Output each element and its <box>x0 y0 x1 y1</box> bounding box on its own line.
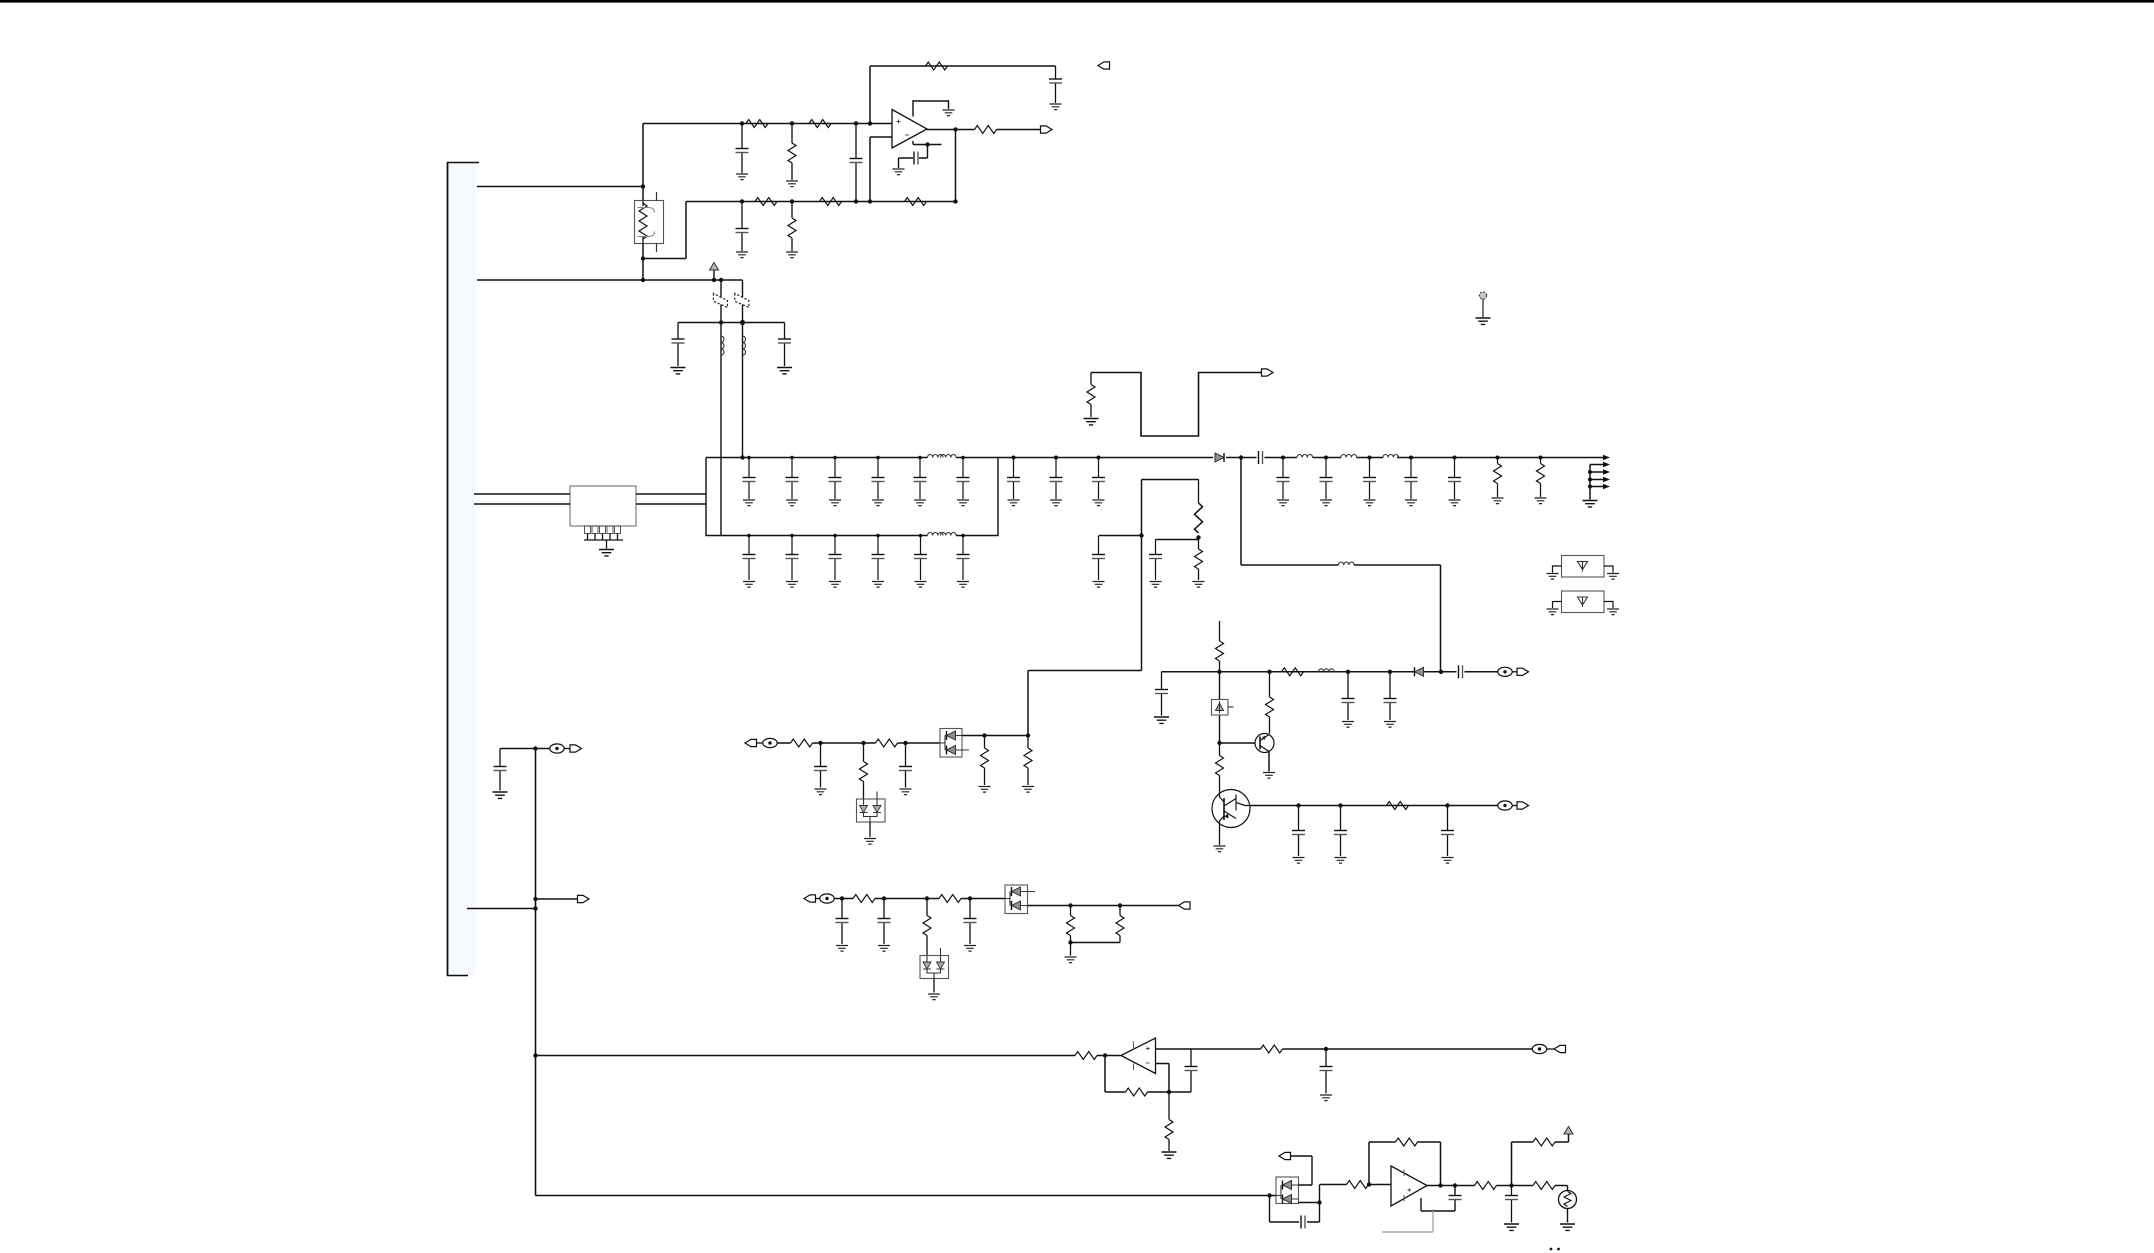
connector P4 (circle-dot + flag) <box>1532 1044 1565 1053</box>
transistor Q2 (PNP power) <box>1212 790 1250 846</box>
connector circle-dot <box>816 894 835 903</box>
ground <box>1442 858 1454 864</box>
inductor L20 <box>1319 669 1335 672</box>
ground <box>957 500 969 506</box>
ground <box>1504 1224 1519 1230</box>
resistor R49 <box>1116 903 1124 942</box>
capacitor C73 (output to +in) <box>1421 1186 1462 1212</box>
ground <box>786 500 798 506</box>
capacitor C11 (shield top row) <box>786 456 799 499</box>
wire inverting input riser x=870 <box>868 137 892 204</box>
resistor R53 <box>1261 1045 1283 1053</box>
wire lower net rail y=898.5 <box>834 898 1005 900</box>
ground <box>964 946 976 952</box>
wire drop x=1241 to y=565 across to x=1440.5 <box>1239 455 1441 672</box>
ground <box>1193 582 1205 588</box>
ground <box>1364 500 1376 506</box>
capacitor C52 to ground <box>1384 670 1397 720</box>
capacitor C50 to ground (left end) <box>1155 672 1168 716</box>
resistor R56 <box>1475 1182 1497 1190</box>
wire long vertical x=535.5 <box>533 746 537 1195</box>
capacitor C30 (series) <box>1259 451 1263 464</box>
capacitor C4 to ground <box>736 199 749 251</box>
node arrow tap <box>1603 477 1610 483</box>
capacitor C36 to ground <box>1405 456 1418 500</box>
resistor R32 <box>1282 668 1304 676</box>
power symbol VCC (triangle) <box>710 263 719 281</box>
wire stage2 feedback loop top <box>1369 1142 1441 1186</box>
wire upper net rail y=743 <box>777 742 940 744</box>
inductor L2 <box>743 336 746 355</box>
TVS module U4 <box>1553 591 1614 613</box>
capacitor C53 (series) <box>1459 665 1463 678</box>
connector P3 (circle-dot + flag) <box>1498 801 1529 810</box>
resistor R6 <box>820 198 842 206</box>
ground <box>829 500 841 506</box>
resistor R5 <box>755 198 777 206</box>
wire op-amp power (gray) <box>1382 1209 1433 1232</box>
opto/diode module U8 (dual diode left) <box>1005 885 1035 914</box>
node junction (1105,1055.5) <box>1103 1053 1107 1057</box>
capacitor C40 to ground <box>1092 536 1105 580</box>
ground <box>1547 574 1559 580</box>
IC U1 (common-mode choke module) <box>570 486 636 526</box>
capacitor C64 to ground <box>878 896 891 944</box>
connector flag OUT3 <box>1179 902 1191 909</box>
ground <box>786 582 798 588</box>
wire IC left pair <box>474 494 570 504</box>
resistor R51 (feedback) <box>1126 1088 1148 1096</box>
connector flag IN2 (lower net) <box>804 895 816 902</box>
connector bus J1 (left edge card connector) <box>447 162 479 976</box>
wire mid rail y=671.8 <box>1162 671 1498 673</box>
connector P2 (circle-dot + flag) <box>1498 667 1529 676</box>
wire IC right pair <box>636 494 706 504</box>
wire tap y=908.5 from bus <box>467 906 538 910</box>
transistor Q1 (NPN) <box>1255 734 1274 772</box>
resistor R2 <box>809 120 831 128</box>
capacitor C54 to ground <box>1292 803 1305 856</box>
opto/diode module U6 (dual diode left) <box>940 729 969 758</box>
capacitor C20 (shield bottom row) <box>743 534 756 580</box>
ground <box>1008 500 1020 506</box>
ground <box>979 787 991 793</box>
ground <box>736 252 748 258</box>
wire stage1 input y=1055.5 <box>533 1053 1121 1057</box>
inductor L13 <box>1339 562 1355 565</box>
ground <box>1065 957 1077 963</box>
ground <box>928 994 940 1000</box>
wire subnet y=536 <box>1099 535 1142 537</box>
wire op-amp inputs <box>1156 1049 1192 1094</box>
inductor L11 <box>1341 455 1357 458</box>
capacitor C22 (shield bottom row) <box>829 534 842 580</box>
resistor R54 <box>1347 1181 1369 1189</box>
resistor R4 (top feedback) <box>926 62 948 70</box>
ground <box>671 368 686 374</box>
fuse F1 (slanted) <box>713 293 727 307</box>
capacitor C3 to ground <box>1049 66 1062 103</box>
resistor R23 <box>1195 480 1203 540</box>
wire output y=129.5 <box>927 127 1041 131</box>
ground <box>1449 500 1461 506</box>
wire op-amp bottom power <box>899 141 942 168</box>
wire output feedback riser x=955.5 <box>953 130 957 204</box>
ground <box>493 792 508 798</box>
wire branch stack x=1590 <box>1589 465 1591 500</box>
resistor R55 (feedback) <box>1396 1138 1418 1146</box>
node junction (1369,1184.5) <box>1367 1182 1371 1186</box>
capacitor C32 to ground <box>1092 456 1105 500</box>
fuse F2 (slanted) <box>735 293 749 307</box>
capacitor C33 to ground <box>1277 456 1290 500</box>
op-amp U9 (facing left) <box>1121 1038 1156 1074</box>
resistor R44 to ground <box>1024 733 1032 785</box>
inductor L3 (top edge) <box>928 455 957 458</box>
ground <box>1277 500 1289 506</box>
ground <box>915 582 927 588</box>
ground <box>1084 419 1099 425</box>
inductor L4 (bottom edge) <box>928 533 957 536</box>
resistor R57 <box>1533 1182 1555 1190</box>
test point to ground (top right) <box>1479 292 1486 317</box>
capacitor C60 to ground <box>494 749 507 791</box>
capacitor C12 (shield top row) <box>829 456 842 499</box>
resistor R34 <box>1387 802 1409 810</box>
resistor R31 (collector load) <box>1266 670 1274 734</box>
ground <box>872 500 884 506</box>
resistor R35 to ground (U-wire source) <box>1087 373 1095 418</box>
ground <box>1607 574 1619 580</box>
resistor R41 <box>876 739 898 747</box>
wire lower input rail y=201.5 <box>686 201 956 203</box>
resistor R58 (pull-up) <box>1533 1138 1555 1146</box>
ground <box>1050 104 1062 110</box>
resistor R42 (to suppressor) <box>860 741 868 799</box>
node junction (643,186.5) <box>641 184 645 188</box>
resistor R46 <box>939 895 961 903</box>
ground <box>1162 1152 1177 1158</box>
resistor R7 (feedback) <box>905 198 927 206</box>
ground <box>1492 498 1504 504</box>
wire vertical x=742.5 (phase B) <box>742 280 744 458</box>
wire exit y=905.5 to flag <box>1028 905 1179 907</box>
ground <box>815 789 827 795</box>
node arrow tap <box>1603 484 1610 490</box>
wire bus line 1 <box>477 186 643 188</box>
capacitor C34 to ground <box>1320 456 1333 500</box>
ground <box>1476 318 1491 324</box>
ground <box>1150 582 1162 588</box>
wire cross tie y=322.5 <box>678 320 785 325</box>
node arrow tap <box>1603 462 1610 468</box>
capacitor C24 (shield bottom row) <box>914 534 927 580</box>
capacitor C72 (bypass detour) <box>1270 1196 1322 1229</box>
wire exit y=735.5 <box>962 735 1028 737</box>
IC bottom pins <box>585 526 621 534</box>
shield box (EMI filter bank) <box>706 458 998 536</box>
ground <box>872 582 884 588</box>
ground <box>1560 1224 1575 1230</box>
ground <box>1214 846 1226 852</box>
capacitor C31 to ground <box>1050 456 1063 500</box>
resistor R1 <box>746 120 768 128</box>
resistor R40 <box>791 739 813 747</box>
resistor R24 to ground <box>1195 538 1203 581</box>
TVS module U3 <box>1553 556 1614 578</box>
capacitor C51 to ground <box>1342 670 1355 720</box>
ground <box>736 174 748 180</box>
ground <box>1583 501 1598 507</box>
ground <box>893 169 905 175</box>
node arrow tap <box>1603 469 1610 475</box>
wire top diode exit to flag <box>1279 1152 1312 1185</box>
ground <box>864 839 876 845</box>
wire U-shaped run to flag <box>1091 373 1262 437</box>
resistor R45 <box>853 895 875 903</box>
ground <box>786 252 798 258</box>
node junction (643,258.5) <box>641 256 645 260</box>
capacitor C21 (shield bottom row) <box>786 534 799 580</box>
lamp LA1 <box>1559 1186 1577 1223</box>
capacitor C55 to ground <box>1334 803 1347 856</box>
ground <box>786 181 798 187</box>
capacitor C13 (shield top row) <box>872 456 885 499</box>
wire long drop x=1141.5 with elbow to x=1028 <box>1028 480 1199 736</box>
node stray dots <box>1550 1248 1553 1251</box>
wire filter bottom loop <box>643 202 686 281</box>
ground <box>599 550 614 556</box>
ground <box>1405 500 1417 506</box>
capacitor C37 to ground <box>1448 456 1461 500</box>
resistor R20 to ground <box>1494 456 1502 498</box>
ground <box>743 582 755 588</box>
diode D2 (pointing left) <box>1415 667 1424 676</box>
capacitor C14 (shield top row) <box>914 456 927 499</box>
capacitor C74 to ground <box>1505 1186 1518 1223</box>
diode D1 <box>1215 453 1224 462</box>
ground <box>1093 500 1105 506</box>
capacitor C23 (shield bottom row) <box>872 534 885 580</box>
wire vertical x=721 (phase A) <box>720 280 722 536</box>
connector stack left (circle-dot + flag) <box>500 744 582 753</box>
top border bar <box>0 0 2154 3</box>
capacitor C30 to ground <box>1007 456 1020 500</box>
capacitor C35 to ground <box>1363 456 1376 500</box>
op-amp U2 <box>892 110 927 149</box>
connector circle-dot <box>757 738 778 747</box>
ground <box>914 500 926 506</box>
connector flag IN1 (upper net) <box>745 739 757 746</box>
wire main rail y=457.5 <box>998 457 1603 459</box>
wire stage2 output y=1185.5 <box>1427 1183 1568 1187</box>
capacitor C71 to ground <box>1320 1047 1333 1094</box>
ground <box>1263 773 1275 779</box>
op-amp U11 <box>1391 1166 1427 1206</box>
capacitor C70 (feedback) <box>1185 1049 1198 1092</box>
capacitor C63 to ground <box>836 896 849 944</box>
ground <box>878 946 890 952</box>
capacitor C25 (shield bottom row) <box>957 534 970 580</box>
capacitor C41 to ground <box>1149 540 1162 581</box>
wire tap y=899 to flag <box>533 895 589 902</box>
wire stage1 output run y=1049 <box>1191 1048 1532 1050</box>
capacitor C15 (shield top row) <box>957 456 970 499</box>
ground <box>1342 722 1354 728</box>
wire bottom diode exit <box>1299 1185 1320 1203</box>
ground <box>943 110 955 116</box>
resistor R21 to ground <box>1537 456 1545 498</box>
wire op-amp top power to ground <box>913 101 949 117</box>
wire feedback loop <box>1105 1056 1191 1093</box>
ground <box>1293 858 1305 864</box>
wire stage2 input row y=1184.5 <box>1320 1184 1392 1186</box>
wire stage2 bottom rail y=1195.5 <box>536 1193 1277 1197</box>
resistor R33 (base chain) <box>1216 743 1224 790</box>
wire pull-up to V+ <box>1512 1135 1569 1186</box>
node junction (742.5,457.5) <box>740 455 744 459</box>
ground <box>829 582 841 588</box>
inductor L12 <box>1383 455 1399 458</box>
wire bus line 2 y=280 <box>477 279 743 281</box>
ground <box>1050 500 1062 506</box>
resistor R9 (output) <box>975 126 997 134</box>
resistor R43 to ground <box>981 733 989 785</box>
ground <box>1535 498 1547 504</box>
resistor R3 to ground <box>788 121 796 180</box>
capacitor C2 (between rails) <box>850 121 863 203</box>
wire joining resistor bottoms y=942.5 <box>1068 940 1120 955</box>
wire vertical x=643 to filter <box>642 124 644 201</box>
inductor L10 <box>1297 455 1313 458</box>
capacitor C10 (shield top row) <box>743 456 756 499</box>
node rail end arrow <box>1603 455 1610 461</box>
connector flag OUT2 <box>1262 369 1274 376</box>
ground <box>1022 787 1034 793</box>
capacitor C1 to ground <box>736 121 749 173</box>
wire pin commoning <box>584 534 623 549</box>
opto/diode module U10 (dual diode left) <box>1276 1177 1299 1204</box>
ground <box>743 500 755 506</box>
suppressor module U5 (dual diode down) <box>857 792 886 838</box>
ground <box>900 789 912 795</box>
capacitor C6 to ground <box>672 323 685 367</box>
capacitor C56 to ground <box>1441 803 1454 856</box>
resistor R48 <box>1067 903 1075 942</box>
ground <box>1335 858 1347 864</box>
capacitor C5 (decoupling) <box>914 152 918 165</box>
capacitor C7 to ground <box>778 323 791 367</box>
resistor R8 to ground <box>788 199 796 251</box>
wire base feed y=743 <box>1217 741 1255 745</box>
ground <box>836 946 848 952</box>
filter FL1 (box with resistor and clips) <box>635 192 664 252</box>
ground <box>957 582 969 588</box>
resistor R47 (to suppressor) <box>923 896 931 955</box>
inductor L1 <box>721 336 724 355</box>
ground <box>1093 582 1105 588</box>
wire emitter rail y=805.5 <box>1250 805 1498 807</box>
connector flag OUT1 <box>1041 126 1053 133</box>
power symbol V+ <box>1564 1127 1573 1135</box>
capacitor C65 to ground <box>964 896 977 944</box>
ground <box>1154 717 1169 723</box>
wire upper input rail y=123.5 <box>643 123 892 125</box>
node junctions on bus line 2 <box>641 278 645 282</box>
ground <box>1607 609 1619 615</box>
suppressor module U7 (dual diode down) <box>920 948 949 993</box>
wire feedback riser x=870 <box>868 66 872 126</box>
resistor R30 (stub above rail) <box>1216 621 1224 674</box>
capacitor C62 to ground <box>899 741 912 788</box>
ground <box>777 368 792 374</box>
ground <box>1320 500 1332 506</box>
ground <box>1384 722 1396 728</box>
node junction (1441,671.8) <box>1439 670 1443 674</box>
ground <box>1547 609 1559 615</box>
capacitor C61 to ground <box>814 741 827 788</box>
wire top feedback y=66 <box>870 65 1056 67</box>
ground <box>1320 1095 1332 1101</box>
zener diode DZ1 in box <box>1212 672 1234 743</box>
resistor R50 <box>1075 1052 1097 1060</box>
connector flag (floating, top right) <box>1098 62 1110 69</box>
resistor R52 to ground <box>1165 1092 1173 1151</box>
